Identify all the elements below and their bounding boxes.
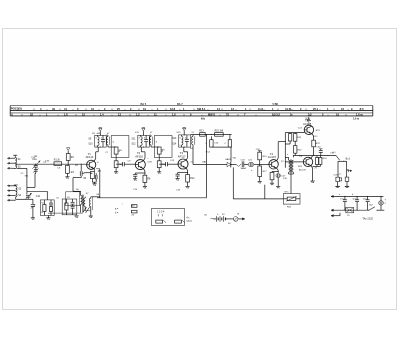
speaker [335,177,349,187]
legend items a b [115,205,137,217]
svg-text:1,6 m: 1,6 m [353,117,359,120]
svg-text:GA: GA [233,157,237,160]
IF transformer S13 S14 detector [172,127,195,164]
svg-text:R13: R13 [199,131,204,133]
oscillator gang C1b [22,191,47,219]
detector diode and caps [193,160,260,169]
bias resistors R2 R3 [65,148,74,179]
svg-text:SW 6.1: SW 6.1 [197,107,206,111]
node R2 [68,164,69,165]
svg-text:R12: R12 [190,178,195,180]
wire main line to T1 base [15,163,86,165]
svg-text:AF116: AF116 [135,154,143,158]
svg-text:S13: S13 [172,138,177,140]
oscillator coil S5 [73,164,92,192]
resistor R1 [54,160,62,166]
svg-text:1.2: 1.2 [136,113,140,117]
antenna coil S3 S4 lower [14,184,18,186]
svg-text:S10: S10 [88,144,93,146]
transistor T6 output [285,154,322,183]
svg-text:16.8: 16.8 [170,107,176,111]
svg-text:S12: S12 [132,144,137,146]
speaker line and jack Bu1 [293,147,352,178]
dial scale band [10,103,373,120]
svg-text:GA53: GA53 [225,158,231,161]
thermistor box R25 [283,194,300,209]
svg-text:BA 7: BA 7 [177,103,183,106]
power detail TAx2132 [331,195,387,220]
svg-text:Bu 1: Bu 1 [346,158,351,160]
svg-text:AF117: AF117 [178,154,186,158]
antenna coil S1 S2 [10,155,21,169]
svg-text:POC3(5): POC3(5) [11,107,22,111]
svg-text:AF114: AF114 [86,155,94,159]
oscillator transformer S6 S7 [48,189,100,218]
wire lower terminals [21,198,23,200]
svg-text:S14: S14 [172,143,177,145]
svg-text:AC128: AC128 [299,168,306,171]
misc value labels [21,128,355,226]
svg-text:M: M [237,214,239,216]
oscillator padder box [40,200,54,220]
svg-text:1.6 m: 1.6 m [356,113,363,117]
svg-text:BA 5: BA 5 [141,103,147,106]
transistor T3 IF amp [176,147,196,188]
svg-text:1.6: 1.6 [64,113,68,117]
svg-text:R15 3k9: R15 3k9 [215,131,224,133]
aerial terminal arrows [7,157,10,201]
transistor T2 IF amp [133,147,151,188]
svg-text:MW 8: MW 8 [208,113,215,117]
IF transformer S9 S10 [88,128,135,174]
svg-text:1 2 3 4: 1 2 3 4 [157,211,165,214]
svg-text:7.5: 7.5 [360,107,364,111]
wire AGC bus [97,197,207,199]
svg-text:41 31: 41 31 [285,107,292,111]
AGC network top [191,131,232,162]
driver transformer S15 and resistors [283,133,304,194]
transistor T1 mixer [86,147,99,171]
IF transformer stage [0,0,1,1]
svg-text:11.8: 11.8 [258,107,263,111]
svg-text:AC107: AC107 [268,155,277,159]
svg-text:M: M [11,114,13,117]
svg-text:1.4: 1.4 [100,113,104,117]
svg-text:1.0: 1.0 [172,113,176,117]
node C1a [35,164,36,165]
svg-text:NTC: NTC [284,191,289,193]
svg-text:6.0 5.5: 6.0 5.5 [272,113,280,117]
T4 base divider R16 R17 [258,151,269,184]
svg-text:5.2: 5.2 [308,113,312,117]
battery and meter [210,213,245,222]
svg-text:5 BK: 5 BK [273,103,279,106]
legend box [152,208,193,225]
svg-text:1,5 V: 1,5 V [186,221,192,223]
emitter resistor R4 [91,169,102,192]
svg-text:0,1V: 0,1V [313,136,318,138]
transistor T5 output [303,117,321,156]
svg-text:TAx 2132: TAx 2132 [362,218,373,221]
svg-text:25.1: 25.1 [313,107,319,111]
svg-text:C1b: C1b [36,196,41,198]
wire bottom bus to thermistor box [233,198,283,200]
svg-text:0,9V: 0,9V [148,162,153,164]
transistor T4 AF preamp [268,142,286,189]
IF transformer S11 S12 [132,128,179,174]
svg-text:T6: T6 [299,154,303,158]
wire antenna tap to C1b [17,167,27,169]
svg-text:R1 2k: R1 2k [54,160,61,162]
variable capacitor C1a with trimmer [27,158,40,188]
